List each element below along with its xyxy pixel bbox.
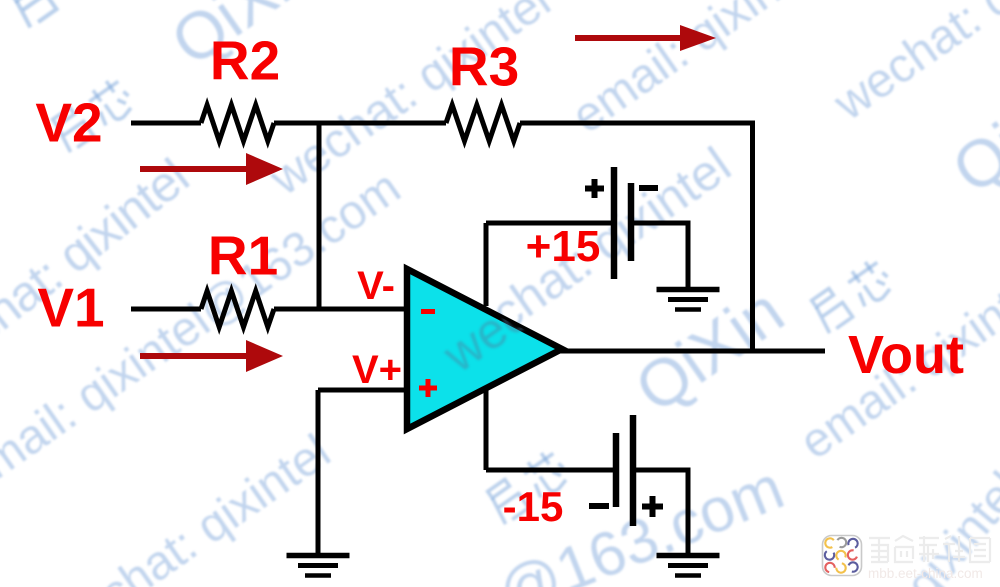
wm text wechat qixintel: [826, 0, 1000, 129]
watermark fragment on op-amp: [432, 141, 745, 384]
op-amp minus marker: [421, 309, 435, 314]
label R3: [449, 40, 519, 95]
ground (+15): [657, 290, 720, 310]
wm text wechat qixintel: [42, 427, 338, 587]
battery +15 positive plate: [611, 167, 618, 279]
wm text email qixintel: [564, 0, 830, 142]
resistor R1: [201, 291, 274, 327]
ground (non-inverting input): [287, 556, 350, 576]
wire V+ input: [318, 388, 407, 393]
wm text @163.com: [490, 457, 792, 587]
wm text wechat qixintel: [0, 151, 197, 391]
label +15: [526, 225, 601, 269]
logo arc r1c3: [847, 537, 859, 549]
current arrow I1: [140, 340, 283, 372]
op-amp V- power stub: [484, 390, 489, 470]
op-amp plus marker: [419, 379, 437, 397]
label V1: [37, 281, 104, 336]
wire -15 battery to ground: [633, 470, 688, 555]
logo arc r1c2: [835, 536, 848, 549]
battery +15 minus sign: [639, 185, 658, 191]
logo hanzi title mianbaoban-shequ: [869, 536, 990, 562]
label Vout: [848, 328, 964, 382]
label R1: [208, 229, 278, 284]
wm text wechat qixintel: [262, 0, 558, 204]
resistor R2: [201, 105, 274, 141]
wm text email qixintel@163.com: [0, 163, 409, 503]
logo arc r2c2: [835, 549, 848, 562]
logo arc r3c1: [825, 562, 836, 573]
wire V+ to ground: [316, 390, 321, 555]
wm text wechat qixintel: [430, 139, 739, 376]
wire node to R3: [274, 121, 446, 126]
wm hanzi qi (top-left corner): [0, 0, 73, 39]
op-amp V+ power stub: [484, 223, 489, 306]
watermark layer: [0, 0, 1000, 2]
logo arc r3c3: [847, 561, 859, 573]
wire R3 to feedback corner: [520, 123, 753, 351]
wire V1 input: [131, 307, 201, 312]
logo arc r2c3: [846, 549, 858, 561]
wire V2 input: [131, 121, 201, 126]
logo arc r1c1: [824, 537, 837, 550]
label -15: [503, 486, 564, 528]
battery +15 plus sign: [585, 179, 604, 198]
battery -15 minus sign: [589, 503, 609, 509]
label R2: [210, 34, 280, 89]
current arrow Iout: [575, 25, 716, 51]
svg-text:mbb.eet-china.com: mbb.eet-china.com: [868, 566, 983, 581]
wire to +15 battery: [486, 221, 614, 226]
wm hanzi qixin pair (mid-right): [801, 250, 903, 343]
label V-: [357, 266, 395, 306]
wm text QiXin: [160, 0, 330, 76]
resistor R3: [446, 105, 520, 141]
wire op-amp to -15 battery: [486, 468, 616, 473]
battery +15 negative plate: [628, 183, 635, 261]
battery -15 negative plate: [613, 433, 620, 507]
output wire to Vout: [560, 349, 825, 354]
logo rounded square: [823, 536, 862, 576]
wm text QiXin: [941, 57, 1000, 204]
ground (-15): [657, 556, 720, 576]
wm text qixintel: [898, 465, 1000, 587]
wire junction vertical: [317, 123, 322, 309]
logo arc r2c1: [823, 549, 836, 562]
wm text email qixintel: [792, 262, 1000, 468]
battery -15 plus sign: [642, 496, 663, 517]
wm text QiXin: [624, 276, 794, 423]
wm hanzi qixin pair (upper-left): [42, 69, 144, 162]
current arrow I2: [140, 153, 283, 185]
wire +15 battery to ground: [631, 223, 688, 289]
battery -15 positive plate: [630, 415, 637, 526]
label V2: [35, 96, 102, 151]
logo watermark bottom-right: [815, 525, 1000, 587]
wire R1 to op-amp inverting input: [274, 307, 407, 312]
label V+: [352, 350, 402, 390]
wm hanzi qixin pair (bottom-center): [477, 441, 579, 534]
logo arc r3c2: [836, 563, 847, 574]
